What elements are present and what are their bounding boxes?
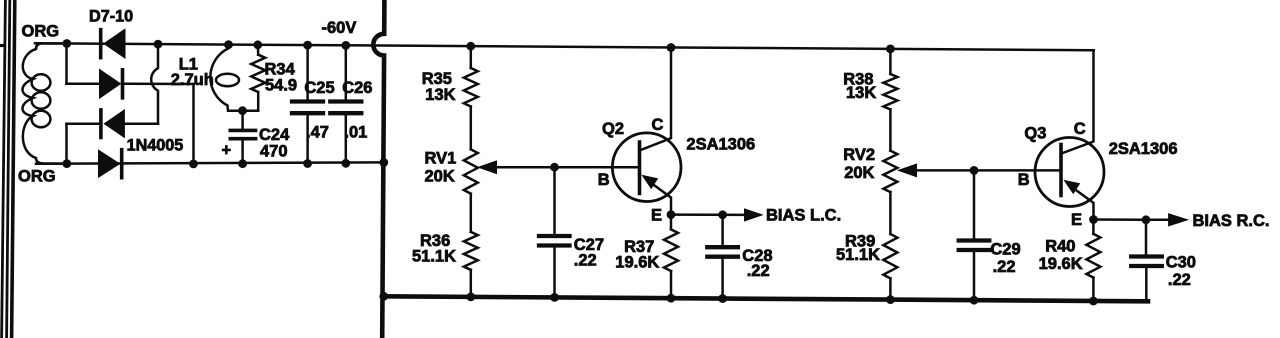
diode D8 (second) xyxy=(67,69,194,98)
node: R34 top xyxy=(253,40,262,49)
node: base wire / C27 tap xyxy=(550,163,559,172)
svg-text:13K: 13K xyxy=(425,86,455,104)
svg-text:Q3: Q3 xyxy=(1024,125,1046,143)
node: R38 top xyxy=(886,45,895,54)
node: R37 bottom xyxy=(667,294,676,303)
node: top rail / D9 riser xyxy=(154,40,163,49)
node: C29 bottom xyxy=(970,296,979,305)
resistor R36 xyxy=(464,194,478,297)
resistor R38 xyxy=(883,49,897,151)
transistor Q3 emitter arrow xyxy=(1065,181,1080,194)
node: R35 top xyxy=(466,42,475,51)
node: C26 top xyxy=(341,41,350,50)
svg-text:470: 470 xyxy=(260,143,288,161)
svg-text:B: B xyxy=(598,171,610,189)
bottom thick ground rail xyxy=(384,296,1148,301)
node: ORG top junction xyxy=(62,39,71,48)
svg-text:ORG: ORG xyxy=(18,168,56,186)
svg-text:BIAS R.C.: BIAS R.C. xyxy=(1193,212,1270,230)
svg-text:.22: .22 xyxy=(574,251,597,269)
capacitor C24 (electrolytic) xyxy=(230,111,255,164)
wire: RV2 wiper to Q3 base xyxy=(912,169,1061,172)
node: E wire / C30 tap xyxy=(1142,215,1151,224)
capacitor C29 xyxy=(959,170,990,300)
transistor Q2 emitter arrow xyxy=(643,176,658,189)
svg-text:RV1: RV1 xyxy=(425,150,457,168)
transformer secondary winding T1 xyxy=(22,44,66,164)
svg-text:-60V: -60V xyxy=(322,19,357,37)
transformer core line 3 xyxy=(12,0,15,338)
capacitor C30 xyxy=(1131,220,1162,301)
svg-text:20K: 20K xyxy=(425,168,455,186)
node: R36 bottom xyxy=(466,293,475,302)
capacitor C25 xyxy=(292,45,323,163)
bottom rail left section xyxy=(36,162,384,163)
svg-text:51.1K: 51.1K xyxy=(836,246,880,264)
node: ORG bottom junction xyxy=(62,159,71,168)
svg-text:E: E xyxy=(1071,211,1082,229)
svg-text:2SA1306: 2SA1306 xyxy=(686,136,755,154)
transistor Q3 emitter lead xyxy=(1070,186,1094,220)
svg-text:.01: .01 xyxy=(344,123,367,141)
node: C25 bottom xyxy=(303,159,312,168)
vertical bus line with hop over -60V rail xyxy=(373,0,384,338)
wire: D9 anode riser to top rail with hop xyxy=(151,44,158,124)
transistor Q2 collector lead xyxy=(640,48,671,151)
svg-text:C: C xyxy=(1074,120,1086,138)
arrow BIAS R.C. xyxy=(1169,214,1188,226)
diode D9 (third) xyxy=(67,110,159,138)
svg-text:BIAS L.C.: BIAS L.C. xyxy=(766,207,841,225)
wire stub at left edge xyxy=(0,44,4,47)
node: bus / thick rail junction xyxy=(379,292,388,301)
svg-text:1N4005: 1N4005 xyxy=(127,136,184,154)
potentiometer RV1 xyxy=(464,149,497,193)
transistor Q3 collector lead xyxy=(1062,50,1094,153)
svg-text:2.7uh: 2.7uh xyxy=(171,71,214,89)
wire: Q3 emitter to BIAS R.C. xyxy=(1094,218,1170,221)
wire: left vertical diode pair 1-2 xyxy=(65,44,68,84)
resistor R34 xyxy=(251,45,265,111)
diode D7 (top, 1N4005) xyxy=(101,29,125,58)
node: L1/R34/C24 junction xyxy=(238,106,247,115)
potentiometer RV2 xyxy=(883,151,916,192)
capacitor C26 xyxy=(330,45,361,163)
svg-text:13K: 13K xyxy=(846,84,876,102)
wire: left vertical diode pair 3-4 xyxy=(65,124,68,164)
svg-text:C29: C29 xyxy=(990,240,1020,258)
wire: Q2 emitter to BIAS L.C. xyxy=(671,213,746,216)
resistor R37 xyxy=(664,215,678,299)
capacitor C27 xyxy=(539,167,570,297)
svg-text:2SA1306: 2SA1306 xyxy=(1109,140,1178,158)
arrow BIAS L.C. xyxy=(745,209,763,221)
transistor Q3 base bar xyxy=(1059,145,1063,196)
svg-text:R40: R40 xyxy=(1045,238,1075,256)
svg-text:ORG: ORG xyxy=(22,23,60,41)
node: C27 bottom xyxy=(550,293,559,302)
svg-text:19.6K: 19.6K xyxy=(615,254,659,272)
svg-text:C24: C24 xyxy=(259,126,290,144)
svg-text:B: B xyxy=(1018,171,1030,189)
svg-text:C30: C30 xyxy=(1166,253,1196,271)
node: Q2 emitter junction xyxy=(667,210,676,219)
node: bottom rail / D8-D10 junction xyxy=(189,160,198,169)
wire: D8 cathode drop to bottom rail xyxy=(192,84,195,164)
inductor L1 xyxy=(210,45,258,111)
transistor Q3 circle xyxy=(1035,138,1104,207)
node: E wire / C28 tap xyxy=(718,210,727,219)
svg-text:C26: C26 xyxy=(342,79,372,97)
svg-text:.22: .22 xyxy=(747,262,770,280)
diode D10 (bottom, on rail) xyxy=(99,150,122,178)
transistor Q2 emitter lead xyxy=(648,181,671,215)
svg-text:Q2: Q2 xyxy=(602,120,624,138)
transistor Q2 circle xyxy=(612,133,681,202)
resistor R39 xyxy=(883,192,897,300)
resistor R40 xyxy=(1086,220,1100,302)
node: C26 bottom xyxy=(341,159,350,168)
node: C25 top xyxy=(303,41,312,50)
svg-text:RV2: RV2 xyxy=(843,146,875,164)
resistor R35 xyxy=(464,46,478,149)
svg-text:C25: C25 xyxy=(304,79,334,97)
svg-text:51.1K: 51.1K xyxy=(412,248,456,266)
svg-text:20K: 20K xyxy=(844,164,874,182)
svg-text:D7-10: D7-10 xyxy=(89,7,133,25)
-60V top rail xyxy=(35,43,1094,50)
node: R40 bottom xyxy=(1089,297,1098,306)
node: R39 bottom xyxy=(886,295,895,304)
node: bottom-left rail / bus junction xyxy=(379,158,388,167)
svg-text:54.9: 54.9 xyxy=(265,77,297,95)
transistor Q2 base bar xyxy=(638,142,642,193)
svg-text:19.6K: 19.6K xyxy=(1039,255,1083,273)
node: C28 bottom xyxy=(718,294,727,303)
svg-text:C: C xyxy=(652,116,664,134)
svg-text:E: E xyxy=(651,207,662,225)
node: Q3 emitter junction xyxy=(1089,215,1098,224)
node: Q2 collector / top rail xyxy=(667,43,676,52)
svg-text:.47: .47 xyxy=(306,123,329,141)
svg-text:.22: .22 xyxy=(993,258,1016,276)
svg-text:.22: .22 xyxy=(1168,271,1191,289)
node: base wire / C29 tap xyxy=(970,166,979,175)
node: C24 bottom xyxy=(238,159,247,168)
svg-text:+: + xyxy=(222,141,232,159)
transformer core line 2 xyxy=(7,0,10,338)
transformer core line 1 xyxy=(2,0,6,338)
wire: RV1 wiper to Q2 base xyxy=(492,166,640,169)
node: L1 top xyxy=(224,40,233,49)
capacitor C28 xyxy=(707,215,738,299)
